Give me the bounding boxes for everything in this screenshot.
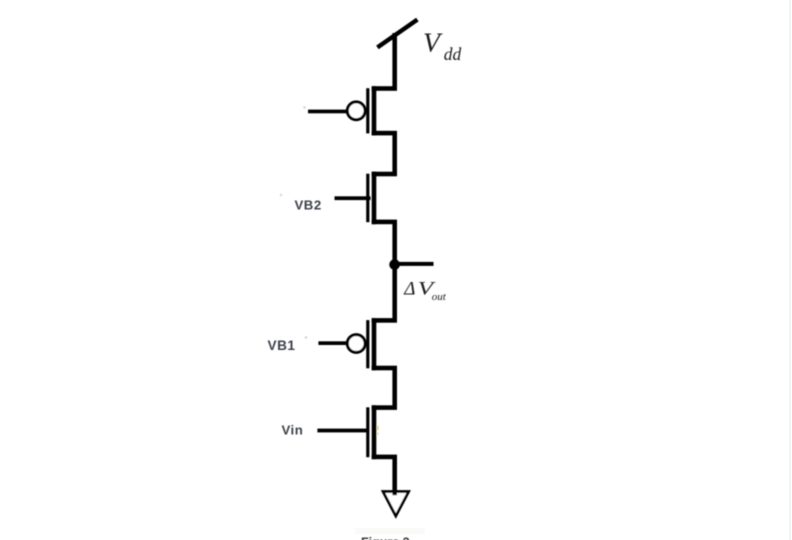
wire Vdd rail to M4 source xyxy=(392,33,397,90)
faint right page edge xyxy=(789,0,791,540)
svg-text:dd: dd xyxy=(444,44,462,64)
scan speck near M4 gate xyxy=(303,106,305,108)
wire M4 drain to M3 source xyxy=(392,131,397,176)
transistor M4 (top PMOS, source to Vdd) xyxy=(347,86,397,135)
label VB1 xyxy=(268,338,296,353)
svg-text:out: out xyxy=(432,291,447,303)
power rail Vdd slash symbol xyxy=(377,20,417,48)
node Vout junction dot xyxy=(389,259,400,270)
label delta-Vout xyxy=(403,278,446,303)
scan speck near M1 channel (olive marks) xyxy=(377,426,379,435)
wire M2 drain to M1 source xyxy=(392,366,397,410)
transistor M2 (PMOS, gate VB1) xyxy=(347,318,397,370)
svg-text:VB2: VB2 xyxy=(295,198,322,213)
wire M3 drain to output node xyxy=(392,220,397,266)
label VB2 xyxy=(295,198,322,213)
faint band above caption xyxy=(355,528,425,534)
transistor M3 (cascode NMOS, gate VB2) xyxy=(366,172,397,225)
svg-text:Vin: Vin xyxy=(282,422,304,437)
svg-text:Δ: Δ xyxy=(403,278,415,299)
wire node to M2 source xyxy=(392,262,397,322)
wire M1 drain to ground xyxy=(392,455,397,492)
wire output stub xyxy=(394,262,434,266)
transistor M1 (input NMOS, gate Vin) xyxy=(366,405,397,459)
ground xyxy=(383,490,409,516)
caption Figure 2 (clipped at page bottom) xyxy=(361,536,410,540)
scan speck above VB1 xyxy=(305,336,307,338)
svg-text:VB1: VB1 xyxy=(268,338,296,353)
label Vdd xyxy=(423,27,462,64)
label Vin xyxy=(282,422,304,437)
wire M2 gate stub xyxy=(318,341,347,345)
wire M1 gate stub xyxy=(317,429,368,433)
scan speck left of VB2 xyxy=(280,194,282,196)
wire M3 gate stub xyxy=(335,196,371,200)
svg-text:Figure 2: Figure 2 xyxy=(361,536,410,540)
wire M4 gate stub xyxy=(308,110,348,114)
